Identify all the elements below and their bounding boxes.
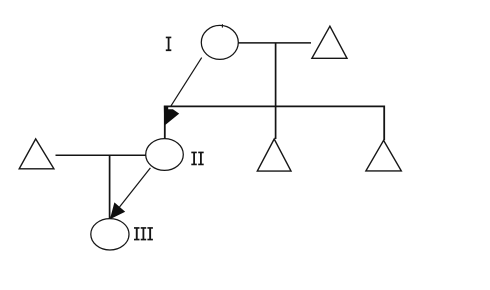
tick artifact at top of circle I <box>221 24 223 27</box>
arrowhead at top of III <box>110 202 125 219</box>
marriage line I <box>238 42 311 44</box>
matriline arrow line from II <box>120 168 151 207</box>
label II <box>191 152 203 166</box>
female circle II (mother) <box>146 139 184 171</box>
female circle I (grandmother) <box>201 25 238 59</box>
marriage line II <box>56 154 147 156</box>
female circle III (daughter) <box>91 219 129 250</box>
male triangle sibling right <box>366 140 401 171</box>
male triangle spouse of II <box>19 139 54 169</box>
arrowhead at junction above II <box>164 106 179 126</box>
male triangle sibling middle <box>257 139 291 171</box>
descent line from couple II <box>109 155 111 219</box>
male triangle spouse of I <box>312 26 347 58</box>
label I <box>166 37 172 52</box>
descent line from couple I <box>275 43 277 139</box>
matriline arrow line from I <box>171 58 202 107</box>
sibling line with corner drops <box>165 106 384 140</box>
label III <box>134 227 153 240</box>
